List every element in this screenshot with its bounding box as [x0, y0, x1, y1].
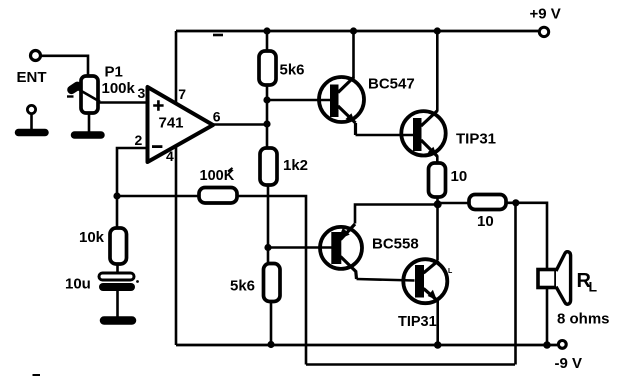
wire op-amp pin7 riser — [175, 31, 178, 104]
svg-text:5k6: 5k6 — [280, 61, 305, 78]
minus mark near wiper — [67, 95, 74, 97]
svg-text:TIP31: TIP31 — [398, 314, 437, 330]
node bottom rail junction divider — [267, 341, 274, 348]
svg-text:-9 V: -9 V — [555, 355, 583, 372]
wire top +9V rail — [176, 30, 538, 33]
svg-text:BC547: BC547 — [368, 76, 415, 93]
svg-text:L: L — [589, 279, 598, 295]
svg-text:8 ohms: 8 ohms — [557, 311, 610, 328]
node op-amp output junction — [263, 120, 270, 127]
svg-text:100k: 100k — [102, 80, 136, 97]
dot artifact near capacitor — [136, 280, 139, 283]
wire feedback right to drop — [237, 196, 306, 365]
wire BC558 collector to TIP31 base — [357, 279, 415, 281]
ground input sleeve — [19, 129, 46, 137]
svg-text:10u: 10u — [65, 276, 91, 293]
wire op-amp output pin6 — [212, 123, 267, 126]
wire bottom -9V rail — [176, 344, 557, 347]
svg-text:1k2: 1k2 — [283, 157, 308, 174]
terminal +9V — [539, 27, 548, 36]
node output junction — [434, 200, 442, 208]
node BC547 base branch — [263, 96, 270, 103]
label minus input — [152, 145, 162, 148]
node top rail junction at BC547 collector — [350, 27, 357, 34]
svg-text:3: 3 — [138, 85, 146, 101]
terminal input sleeve — [27, 105, 35, 113]
wire junction to 10k — [116, 196, 119, 229]
wire output node to 10 ohm right — [438, 202, 469, 205]
node speaker feedback junction — [512, 199, 519, 206]
artifact mark bottom-left — [33, 374, 41, 376]
node top rail junction at main divider — [263, 27, 270, 34]
svg-text:L: L — [448, 268, 453, 275]
wire BC547 emitter to TIP31 base — [356, 134, 414, 137]
speaker RL cone — [556, 252, 571, 305]
dash mark under rail — [213, 34, 223, 37]
wire op-amp pin4 drop — [175, 146, 178, 345]
svg-text:+9 V: +9 V — [530, 6, 561, 23]
wire 10 output to speaker feed — [506, 203, 547, 269]
terminal input ENT — [31, 51, 41, 61]
node BC558 base branch — [264, 244, 271, 251]
wire 10 to output node — [436, 197, 439, 260]
wire speaker to bottom rail — [546, 288, 549, 346]
svg-text:7: 7 — [178, 86, 186, 102]
transistor Q1 BC547 — [319, 77, 364, 122]
wire sleeve stem — [30, 113, 33, 130]
transistor Q4 TIP31 lower — [403, 259, 447, 303]
wire lower 5k6 to bottom rail — [270, 302, 273, 344]
node bottom rail emitter junction — [434, 341, 442, 349]
node bottom rail speaker junction — [543, 341, 551, 349]
svg-text:10k: 10k — [79, 229, 105, 246]
svg-text:10: 10 — [451, 168, 468, 185]
wire bottom feedback rail — [306, 363, 515, 366]
capacitor 10u minus plate — [103, 283, 131, 291]
transistor Q3 BC558 — [320, 227, 362, 269]
wire pot wiper to pin3 — [97, 101, 148, 104]
svg-text:4: 4 — [166, 148, 174, 164]
wire cap to ground — [116, 291, 119, 317]
ground under pot — [75, 131, 102, 139]
wire pot to ground — [88, 113, 91, 132]
ground under cap — [104, 316, 132, 325]
wire pin2 stub — [117, 148, 148, 196]
potentiometer P1 body — [81, 76, 98, 113]
wire TIP31 emitter to resistor — [436, 156, 439, 164]
wire TIP31 collector riser — [436, 31, 439, 111]
svg-text:5k6: 5k6 — [230, 278, 255, 295]
resistor 1k2 — [260, 148, 277, 185]
wire BC547 collector riser — [352, 31, 355, 78]
svg-text:6: 6 — [213, 109, 221, 125]
resistor 10k — [110, 228, 127, 264]
resistor 5k6 upper — [259, 51, 276, 85]
svg-text:BC558: BC558 — [372, 236, 419, 253]
wire feedback left — [117, 195, 200, 198]
resistor 5k6 lower — [264, 264, 281, 302]
label plus input — [153, 100, 163, 110]
capacitor 10u plus plate — [99, 273, 134, 280]
wire BC558 base — [268, 246, 332, 249]
wire divider between 5k6 and 1k2 — [266, 85, 269, 149]
transistor Q2 TIP31 upper — [401, 111, 445, 155]
wire main divider vertical top — [266, 31, 269, 52]
svg-text:10: 10 — [477, 213, 494, 230]
speaker RL driver box — [538, 270, 556, 288]
wire divider between 1k2 and lower 5k6 — [267, 184, 270, 265]
op-amp U1 741 triangle — [148, 87, 214, 162]
resistor 10 output — [469, 195, 506, 210]
node top rail junction at TIP31 collector — [434, 27, 441, 34]
svg-text:TIP31: TIP31 — [456, 131, 496, 148]
node feedback junction — [113, 192, 120, 199]
svg-text:2: 2 — [135, 132, 143, 148]
terminal -9V — [558, 341, 566, 349]
label 100K — [228, 168, 233, 172]
wire BC547 base — [267, 99, 331, 102]
wire TIP31 lower emitter drop — [436, 300, 439, 345]
svg-text:P1: P1 — [105, 64, 123, 81]
svg-text:100K: 100K — [200, 168, 235, 184]
wire input to pot — [41, 56, 88, 76]
wire 10k to cap — [116, 263, 119, 274]
wire BC558 emitter riser — [355, 205, 438, 224]
svg-text:ENT: ENT — [17, 69, 47, 86]
resistor 10 upper — [429, 163, 446, 197]
svg-text:741: 741 — [159, 115, 184, 132]
resistor 100K feedback — [199, 188, 237, 204]
wire feedback riser right — [514, 203, 517, 365]
potentiometer wiper arrow — [74, 87, 100, 102]
